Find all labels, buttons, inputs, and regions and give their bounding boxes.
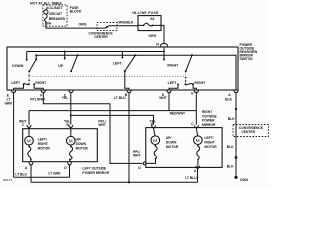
svg-text:LT BLU: LT BLU [185, 176, 197, 180]
junction YEL branch [70, 114, 72, 116]
svg-text:CENTER: CENTER [94, 35, 108, 39]
circuit breaker symbol [44, 9, 48, 23]
svg-text:GRN: GRN [5, 101, 13, 105]
svg-text:BLK: BLK [227, 145, 234, 149]
wire LT BLU right mirror A down to bus [197, 168, 199, 182]
motor M2 up/down (left mirror) [67, 136, 76, 145]
contact under H [163, 59, 165, 61]
convenience center dashed box (right) [233, 125, 269, 137]
svg-text:LEFT: LEFT [11, 81, 21, 85]
wire WHT cross run [29, 110, 196, 112]
motor M4 left/right (right mirror) [194, 136, 203, 145]
wire up/down motor to terminal D (right mirror) [146, 159, 156, 164]
wire YEL terminal C down [70, 92, 72, 124]
junction mid LEFT on bus 1 [121, 51, 123, 53]
wire LT BLU left mirror A down [30, 165, 32, 183]
terminal A mark (switch) [234, 90, 239, 92]
svg-text:BLOCK: BLOCK [70, 10, 82, 14]
wire right contact to terminal G [193, 84, 196, 90]
wire ORG from fuse block to convenience center [46, 22, 138, 28]
svg-text:WHT: WHT [133, 154, 141, 158]
svg-text:ORG: ORG [148, 34, 156, 38]
svg-text:ORG/BLK: ORG/BLK [117, 21, 134, 25]
svg-text:UP: UP [58, 64, 64, 68]
svg-text:UP/: UP/ [76, 137, 82, 141]
svg-text:ACC-BATT: ACC-BATT [46, 6, 63, 10]
wire terminal G down to right mirror C [195, 92, 197, 124]
UP contact [64, 58, 66, 60]
label RIGHT OUTSIDE POWER MIRROR [202, 110, 217, 127]
svg-text:CENTER: CENTER [241, 130, 255, 134]
DOWN contact [26, 59, 28, 61]
switch internal bus wire 1 [27, 51, 164, 53]
junction LT BLU bus [128, 181, 130, 183]
svg-text:LEFT: LEFT [113, 61, 123, 65]
terminal D mark (right mirror) [143, 162, 145, 166]
terminal H connector mark [161, 44, 168, 47]
left outside power mirror box [23, 129, 98, 162]
svg-text:LT BLU: LT BLU [114, 96, 126, 100]
svg-text:MIRROR: MIRROR [202, 123, 216, 127]
terminal D mark (left mirror) [67, 162, 71, 164]
terminal B mark [127, 90, 132, 92]
svg-text:BLK: BLK [227, 165, 234, 169]
mechanical link dashed horizontal [29, 75, 186, 77]
splice junction S2 [235, 156, 238, 159]
wire LT GRN left mirror D down [69, 165, 71, 178]
svg-text:MOTOR: MOTOR [204, 145, 217, 149]
wire stub into left/right motor [28, 127, 30, 136]
circuit breaker value label ACC-BATT CIRCUIT BREAKER 30A [45, 6, 65, 26]
wire stub into left/right motor (right mirror) [196, 128, 197, 136]
svg-text:LEFT/: LEFT/ [38, 137, 47, 141]
svg-text:G206: G206 [240, 178, 248, 182]
wire YEL branch to right mirror B [71, 115, 154, 124]
mid LEFT contact [121, 57, 123, 59]
mid LEFT contact drop [121, 52, 123, 58]
motor M4 winding [197, 145, 200, 168]
wire LT GRN jog to left mirror D [14, 176, 70, 178]
svg-text:BLK: BLK [225, 97, 232, 101]
mechanical link right vertical [185, 72, 187, 84]
terminal E mark [11, 90, 16, 92]
svg-text:RIGHT: RIGHT [194, 81, 206, 85]
svg-text:RIGHT: RIGHT [38, 142, 48, 146]
svg-text:CIRCUIT: CIRCUIT [49, 12, 62, 16]
svg-text:LT GRN: LT GRN [48, 172, 61, 176]
svg-text:IN-LINE FUSE: IN-LINE FUSE [132, 11, 159, 15]
svg-text:LEFT OUTSIDE: LEFT OUTSIDE [82, 166, 107, 170]
svg-text:MOTOR: MOTOR [166, 145, 179, 149]
svg-text:RIGHT: RIGHT [35, 81, 47, 85]
svg-text:RED/WHT: RED/WHT [170, 112, 185, 116]
wire right contact to terminal F [34, 84, 43, 90]
svg-text:MOTOR: MOTOR [38, 146, 51, 150]
motor M1 winding [28, 145, 32, 162]
wire ORG from in-line fuse down to switch terminal H [161, 25, 164, 43]
switch arm mid RIGHT [185, 54, 193, 72]
svg-text:SWITCH: SWITCH [240, 57, 254, 61]
terminal B mark (left mirror) [69, 125, 73, 127]
junction in convenience center [106, 26, 108, 28]
in-line fuse box [138, 16, 161, 31]
mechanical link left vertical [28, 73, 30, 85]
terminal C mark (right mirror) [194, 125, 198, 127]
svg-text:B9173: B9173 [3, 178, 12, 182]
switch arm mid LEFT [124, 54, 136, 72]
wire PPL/WHT terminal F down and across [43, 92, 142, 163]
svg-text:POWER MIRROR: POWER MIRROR [82, 171, 109, 175]
motor M1 left/right (left mirror) [25, 136, 34, 145]
terminal C mark [69, 90, 74, 92]
fuse F1 3A [138, 17, 161, 26]
wire stub into up/down motor [70, 127, 72, 136]
wire left contact to terminal D [169, 84, 178, 90]
terminal D mark [167, 90, 172, 92]
wire BLK terminal A down to ground [235, 92, 237, 176]
svg-text:3A: 3A [150, 17, 155, 21]
terminal A mark (left mirror) [29, 162, 33, 164]
wire LT BLU bottom bus [31, 181, 198, 183]
wire H drop to contact [163, 47, 165, 60]
DOWN contact drop [26, 52, 28, 60]
svg-text:DOWN: DOWN [76, 142, 87, 146]
wire LT GRN terminal E down [13, 92, 15, 177]
terminal B mark (right mirror) [151, 125, 155, 127]
svg-text:WHT: WHT [159, 96, 167, 100]
wire WHT terminal D down [168, 92, 170, 110]
junction H on bus 1 [163, 51, 165, 53]
wire stub into up/down motor (right mirror) [154, 128, 156, 136]
svg-text:WHT: WHT [98, 123, 106, 127]
svg-text:MOTOR: MOTOR [76, 146, 89, 150]
svg-text:DOWN: DOWN [12, 64, 24, 68]
svg-text:M: M [153, 138, 157, 143]
convenience center dashed box [97, 23, 117, 31]
svg-text:BLK: BLK [228, 117, 235, 121]
wire LT BLU terminal B down [128, 92, 130, 182]
wire left contact to terminal E [14, 84, 24, 90]
fuse block dashed box [43, 5, 67, 26]
ground G206 [234, 176, 248, 182]
label POWER OUTSIDE REARVIEW MIRROR SWITCH [240, 43, 259, 61]
right pair pivot and contacts [177, 83, 194, 85]
svg-text:M: M [69, 139, 73, 144]
terminal F mark [41, 90, 46, 92]
left pair pivot and contacts [23, 83, 36, 85]
switch internal bus wire 2 [36, 55, 236, 90]
svg-text:LEFT: LEFT [168, 81, 178, 85]
svg-text:YEL: YEL [62, 96, 68, 100]
svg-text:M: M [196, 138, 200, 143]
motor M3 up/down (right mirror) [151, 136, 160, 145]
svg-text:M: M [27, 139, 31, 144]
terminal G mark [194, 90, 199, 92]
svg-text:LT BLU: LT BLU [15, 172, 27, 176]
terminal A mark (right mirror) [196, 166, 200, 168]
svg-text:BREAKER: BREAKER [49, 17, 66, 21]
switch arm DOWN [28, 54, 37, 72]
motor M3 winding [154, 145, 157, 160]
svg-text:RIGHT: RIGHT [167, 63, 179, 67]
UP contact drop [64, 52, 66, 59]
junction UP on bus 1 [64, 51, 66, 53]
wire mid LEFT arm to terminal B [125, 71, 129, 90]
right outside power mirror box [146, 128, 222, 168]
power outside rearview mirror switch box [7, 47, 238, 90]
wire WHT left mirror C up [28, 111, 30, 125]
motor M2 winding [69, 145, 73, 162]
terminal C mark (left mirror) [27, 125, 31, 127]
switch arm UP [70, 54, 78, 72]
splice junction S1 [235, 108, 237, 110]
svg-text:G: G [191, 92, 194, 96]
svg-text:ORG: ORG [79, 23, 87, 27]
